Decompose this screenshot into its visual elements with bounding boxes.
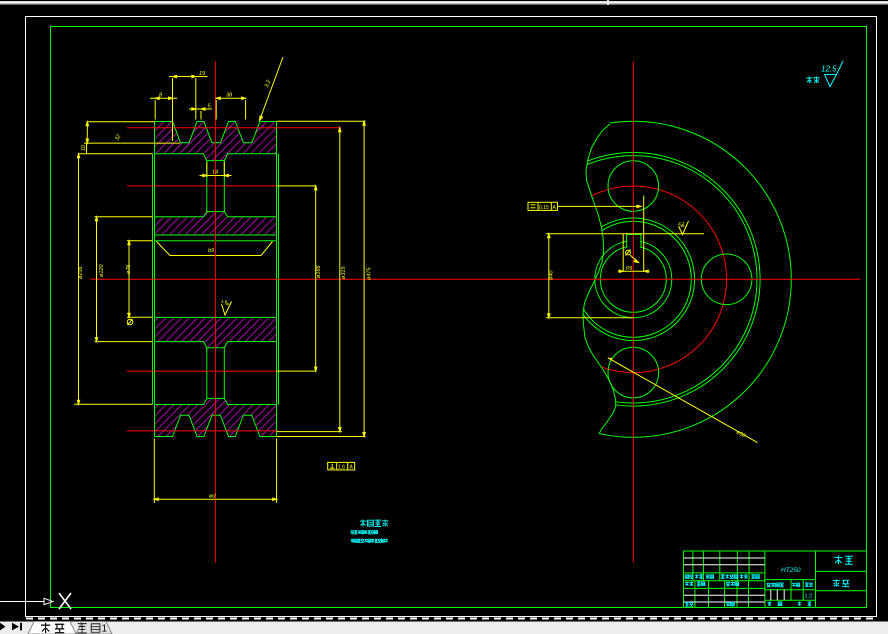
svg-text:ø40: ø40 xyxy=(549,270,555,280)
bore roughness symbol xyxy=(222,302,232,316)
svg-text:ød: ød xyxy=(209,494,216,500)
keyway dimension xyxy=(546,196,704,273)
upper hub band (hatched) with web neck joint xyxy=(155,212,277,235)
model tab label xyxy=(41,623,64,633)
svg-text:ø236: ø236 xyxy=(78,266,84,279)
technical requirements line 1 xyxy=(351,530,378,534)
hub outer circles xyxy=(572,218,695,341)
layout tab label xyxy=(77,624,99,633)
geometric tolerance frame xyxy=(528,202,641,210)
bore chamfer (yellow) xyxy=(157,242,273,256)
web neck dim xyxy=(206,162,208,177)
web neck walls top xyxy=(206,161,208,212)
dim line: groove pitch xyxy=(169,76,208,78)
bore diameter dimension xyxy=(546,234,634,318)
svg-text:3.2: 3.2 xyxy=(678,221,685,226)
svg-text:12.5: 12.5 xyxy=(821,65,837,74)
bore top edge xyxy=(155,240,277,242)
title block grid green xyxy=(684,551,867,608)
model tab (selected) xyxy=(28,622,76,634)
groove surface leader xyxy=(260,57,284,121)
svg-text:ø315: ø315 xyxy=(341,266,347,279)
top toolbar edge bar xyxy=(0,0,888,6)
svg-text:P9: P9 xyxy=(626,266,632,272)
web neck walls bottom xyxy=(206,348,208,399)
layout tab xyxy=(76,622,112,634)
red centerlines of left view xyxy=(127,62,340,563)
svg-text:b9: b9 xyxy=(208,248,214,254)
technical requirements line 2 xyxy=(351,539,388,543)
top dim extension lines xyxy=(154,100,156,120)
UCS icon arrow xyxy=(0,593,71,609)
bore dim diameter mark xyxy=(127,319,133,325)
svg-text:1:2: 1:2 xyxy=(805,594,813,600)
general roughness note top right xyxy=(806,61,843,87)
keyway slot xyxy=(627,233,640,249)
lightening hole bottom xyxy=(608,347,659,398)
tolerance frame lower xyxy=(328,462,355,470)
break line xyxy=(583,124,616,434)
title block white lines xyxy=(684,558,785,602)
svg-text:0.15: 0.15 xyxy=(539,205,549,211)
svg-text:HT250: HT250 xyxy=(781,567,801,574)
hub surface roughness symbol xyxy=(679,221,689,235)
dim line: groove edge width xyxy=(150,97,177,99)
bottom dim xyxy=(153,439,155,504)
outer rim circle xyxy=(475,121,791,437)
body outline verticals xyxy=(153,122,279,437)
svg-text:ø186: ø186 xyxy=(316,265,322,278)
svg-text:10: 10 xyxy=(81,144,87,151)
small header chars xyxy=(685,574,813,606)
rim top band with V-grooves (hatched section) xyxy=(155,122,277,161)
svg-text:14: 14 xyxy=(212,170,218,176)
bottom tab bar xyxy=(0,622,888,634)
dim line: groove spacing xyxy=(216,97,245,99)
svg-text:ø120: ø120 xyxy=(99,264,105,277)
svg-text:ø475: ø475 xyxy=(367,267,373,280)
left vertical dim lines xyxy=(86,122,88,143)
bolt circle (red) xyxy=(540,186,727,373)
vertical centerline xyxy=(632,62,634,563)
svg-text:19: 19 xyxy=(199,71,205,77)
technical requirements heading xyxy=(360,520,389,527)
lower hub band (hatched) with web neck joint xyxy=(155,317,277,347)
svg-text:38: 38 xyxy=(226,93,233,99)
rim inner edge circles xyxy=(507,152,761,406)
svg-text:1.6: 1.6 xyxy=(338,465,345,471)
small dim xyxy=(189,108,212,110)
right vertical dim lines xyxy=(315,186,317,371)
lightening holes leader xyxy=(608,358,758,443)
svg-text:1: 1 xyxy=(102,624,108,634)
rim bottom band with V-grooves (hatched section) xyxy=(155,398,277,436)
lightening hole top xyxy=(608,161,659,212)
lightening hole right xyxy=(701,254,752,305)
broken-out section cut mask xyxy=(470,116,616,441)
plot margin dashed line xyxy=(26,618,878,620)
dim text labels xyxy=(78,71,373,500)
svg-text:ø76: ø76 xyxy=(126,264,132,274)
right side connectors xyxy=(277,120,366,122)
bore circles xyxy=(595,241,672,318)
part name chars xyxy=(833,556,853,587)
left dim connectors xyxy=(87,121,155,123)
main axis centerline xyxy=(90,278,861,280)
svg-text:1.6: 1.6 xyxy=(221,299,228,304)
